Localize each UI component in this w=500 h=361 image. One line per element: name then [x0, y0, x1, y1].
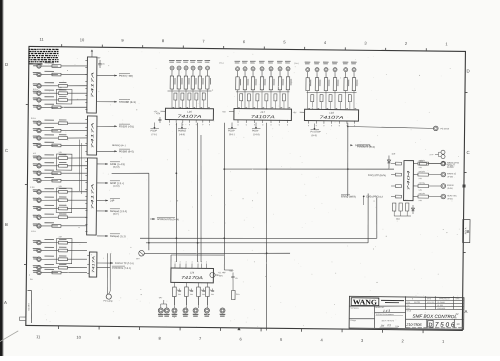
- svg-text:PD Lamp: PD Lamp: [103, 300, 113, 303]
- signal wire P4/S0STB: [97, 266, 131, 270]
- hex buffer L1 (7417A): [87, 57, 97, 113]
- svg-text:4: 4: [192, 261, 193, 264]
- outside engineering text: [376, 313, 404, 316]
- pin stub top: [206, 261, 207, 269]
- svg-text:470 5%: 470 5%: [419, 192, 426, 195]
- net label: [447, 184, 455, 190]
- resistor value label: [44, 239, 54, 240]
- +5V label mid: [153, 112, 162, 123]
- zone tick top: [223, 46, 225, 49]
- resistor value label: [44, 134, 54, 135]
- wire: [265, 101, 267, 109]
- pin number: [173, 106, 175, 109]
- signal wire with arrow: [97, 124, 134, 129]
- wire junction: [266, 252, 268, 254]
- pull-up pin circle (L17 net 1): [234, 61, 240, 71]
- svg-text:4: 4: [201, 260, 202, 263]
- wire: [206, 89, 208, 108]
- pin number: [336, 107, 338, 110]
- wire: [67, 207, 87, 210]
- title block row line: [350, 305, 406, 306]
- connector pin P24: [33, 270, 42, 275]
- net label: [150, 122, 159, 136]
- pull-up pin circle (L16 net 4): [190, 60, 196, 70]
- wire bus: [167, 89, 211, 92]
- pin stub top: [201, 260, 202, 268]
- svg-text:ReSend (1±1): ReSend (1±1): [110, 235, 126, 238]
- capacitor: [178, 288, 182, 296]
- svg-text:P4/CLK TP (7-14.): P4/CLK TP (7-14.): [115, 262, 134, 265]
- pin stub: [246, 120, 247, 127]
- connector pin P19: [33, 223, 41, 228]
- connector pin P6: [33, 105, 41, 110]
- pin stub: [237, 120, 238, 127]
- capacitor: [190, 289, 194, 297]
- svg-text:IN PROT: IN PROT: [447, 166, 455, 169]
- svg-text:9: 9: [270, 124, 271, 127]
- input resistor: [395, 173, 401, 176]
- capacitor: [202, 288, 206, 296]
- wire: [244, 90, 246, 109]
- wire: [61, 73, 87, 76]
- sheet cell: [454, 319, 460, 328]
- series resistor R50: [418, 159, 429, 169]
- resistor R16: [58, 196, 67, 201]
- resistor value label: [44, 222, 54, 223]
- wire: [185, 89, 187, 108]
- svg-text:1DR: 1DR: [391, 153, 395, 156]
- resistor R19: [52, 225, 61, 228]
- wire W3: [145, 252, 291, 255]
- wire: [42, 144, 58, 146]
- capacitor: [211, 288, 215, 296]
- series resistor R53: [418, 192, 429, 202]
- zone tick right: [463, 251, 465, 253]
- resistor R24: [52, 271, 61, 274]
- wire: [270, 90, 272, 109]
- resistor value label: [44, 62, 54, 63]
- connector pin P21: [33, 248, 41, 253]
- svg-text:9: 9: [209, 123, 210, 126]
- +5V arrow: [222, 110, 234, 113]
- resistor value label: [44, 120, 54, 121]
- svg-text:9: 9: [237, 123, 238, 126]
- pin stub top: [185, 260, 186, 268]
- resistor R1: [52, 65, 61, 68]
- pull-up pin circle (L16 net 2): [176, 60, 182, 70]
- wire to pad: [197, 297, 199, 309]
- wire: [279, 71, 281, 77]
- signal wire with arrow: [97, 234, 126, 239]
- svg-text:74107A: 74107A: [177, 114, 201, 119]
- pin stub: [85, 160, 87, 162]
- pull-up resistor (L18-5): [344, 78, 349, 91]
- wire vertical from L17: [223, 123, 226, 254]
- test point circle B+5: [204, 308, 210, 317]
- series resistor: [188, 93, 191, 100]
- svg-text:C 2.2: C 2.2: [30, 186, 35, 189]
- svg-text:STROBE (5+5): STROBE (5+5): [119, 101, 136, 104]
- pull-up resistor (L17-5): [269, 77, 274, 90]
- wire: [192, 70, 194, 76]
- svg-text:7417A: 7417A: [90, 121, 94, 149]
- signal wire with arrow: [97, 198, 120, 203]
- pin stub: [85, 108, 87, 110]
- wire: [248, 101, 250, 109]
- pin number: [238, 106, 240, 109]
- wire H1 sector pulse: [224, 167, 394, 171]
- +5V supply arrow: [91, 49, 101, 59]
- signal wire with arrow: [97, 149, 134, 154]
- pin number: [208, 106, 210, 109]
- tab foot cell: [20, 317, 26, 320]
- pull-up pin circle (L17 net 4): [259, 61, 265, 71]
- wire: [240, 101, 242, 109]
- pull-up pin circle (L16 net 3): [183, 60, 189, 70]
- resistor R11: [58, 154, 67, 159]
- signal wire with arrow: [97, 99, 136, 104]
- pin stub: [85, 142, 87, 144]
- series resistor R52: [418, 182, 429, 192]
- resistor R22: [58, 256, 67, 261]
- wire: [61, 271, 87, 274]
- sheet tab box: [27, 290, 32, 323]
- pin number: [327, 107, 329, 110]
- resistor value label: [44, 214, 54, 215]
- svg-text:WRITE 2ξ: WRITE 2ξ: [447, 163, 456, 166]
- wire: [391, 173, 395, 175]
- pin stub top: [191, 261, 192, 269]
- wire to pad: [173, 297, 175, 309]
- series resistor: [256, 94, 259, 101]
- svg-text:4: 4: [198, 261, 199, 264]
- series resistor: [274, 94, 277, 101]
- pin number: [289, 106, 291, 109]
- svg-text:74107A: 74107A: [251, 114, 275, 119]
- wire: [188, 100, 190, 108]
- MODEL NO cell: [375, 306, 390, 313]
- wire H0 sense line: [348, 127, 434, 129]
- register file L24 (74170A): [171, 268, 214, 283]
- wire: [42, 266, 58, 268]
- zone tick top: [304, 47, 306, 50]
- wire: [429, 195, 442, 197]
- svg-text:WANG: WANG: [353, 298, 378, 306]
- pull-up resistor (L16-5): [198, 76, 203, 89]
- pin number: [318, 107, 320, 110]
- hex inverter L30 (7404): [404, 161, 414, 201]
- pull-up pin circle (L16 net 1): [169, 60, 175, 70]
- pull-up resistor (L17-2): [243, 77, 248, 90]
- hex buffer L3 (7417A): [87, 158, 97, 235]
- wire: [61, 179, 87, 182]
- pin stub: [85, 216, 87, 218]
- svg-text:+5V: +5V: [293, 111, 297, 114]
- connector pin P2: [33, 72, 41, 77]
- pin number: [187, 106, 189, 109]
- wire W2: [146, 191, 369, 245]
- svg-text:.01: .01: [102, 63, 105, 66]
- pin stub: [87, 272, 89, 274]
- resistor R20: [58, 239, 67, 244]
- wire: [325, 72, 327, 78]
- pin stub top: [197, 261, 198, 269]
- pin circle with resistor: [419, 160, 455, 169]
- resistor R13: [52, 172, 61, 175]
- wire: [316, 72, 318, 78]
- size cell divider: [426, 319, 428, 328]
- svg-text:(9-D4): (9-D4): [447, 197, 453, 200]
- wire: [334, 91, 336, 110]
- wire junction: [175, 172, 177, 174]
- svg-text:9: 9: [169, 123, 170, 126]
- zone tick left: [26, 103, 28, 105]
- wire: [42, 157, 58, 159]
- pin number: [263, 106, 265, 109]
- wire: [42, 207, 58, 209]
- wire: [178, 70, 180, 76]
- connector pin P12: [33, 163, 42, 168]
- svg-text:SMF BOX CONTROL: SMF BOX CONTROL: [413, 314, 458, 320]
- resistor value label: [44, 256, 54, 257]
- pull-up resistor (L18-6): [352, 78, 357, 91]
- resistor value label: [44, 264, 54, 265]
- size letter D box: [428, 320, 433, 328]
- wire: [67, 137, 87, 140]
- wire horizontal to cap branch: [171, 254, 224, 255]
- svg-text:P4 STOP: P4 STOP: [311, 130, 321, 133]
- resistor value label: [44, 96, 54, 97]
- resistor R9: [58, 134, 67, 139]
- zone tick right: [465, 91, 467, 93]
- wire: [174, 100, 176, 108]
- wire: [329, 102, 331, 110]
- pin stub: [189, 120, 190, 127]
- zone tick left: [24, 263, 26, 265]
- zone tick bottom: [179, 327, 181, 330]
- zone tick bottom: [260, 328, 262, 331]
- test point circle GND4: [193, 308, 199, 317]
- resistor value label: [44, 177, 54, 178]
- bottom border arrow artifact: [237, 327, 240, 330]
- microtext strip bottom of title block: [406, 327, 463, 329]
- resistor value label: [44, 104, 54, 105]
- series resistor R51: [418, 170, 429, 180]
- pull-up pin circle (L18 net 4): [332, 62, 338, 72]
- wire: [287, 71, 289, 77]
- svg-text:+5V: +5V: [96, 56, 101, 59]
- pull-up resistor (L17-6): [278, 77, 283, 90]
- pin stub: [85, 80, 87, 82]
- wire: [192, 89, 194, 108]
- wire: [61, 144, 87, 147]
- signal wire with arrow: [97, 181, 124, 188]
- wire: [42, 99, 58, 101]
- net label: [228, 122, 237, 136]
- wire: [181, 100, 183, 108]
- logo subtitle LABORATORIES INC: [381, 300, 404, 303]
- pull-up resistor (L18-4): [333, 78, 338, 91]
- connector pin P4: [33, 91, 41, 96]
- pull-up resistor (L18-1): [306, 78, 311, 91]
- svg-text:7417A: 7417A: [90, 182, 94, 210]
- svg-text:(7-8.): (7-8.): [151, 133, 157, 136]
- series resistor: [265, 94, 268, 101]
- svg-text:9: 9: [254, 123, 255, 126]
- svg-text:P0/S80 (6+5): P0/S80 (6+5): [119, 150, 134, 153]
- zone tick bottom: [138, 327, 140, 330]
- wire: [42, 216, 58, 218]
- wire: [316, 91, 318, 110]
- connector pin P7: [33, 121, 42, 126]
- resistor R23: [58, 264, 67, 269]
- series resistor: [195, 93, 198, 100]
- svg-text:+5V: +5V: [222, 110, 226, 113]
- pin stub top: [174, 261, 175, 269]
- net label P4/SEVP: [350, 144, 371, 147]
- series resistor: [202, 93, 205, 100]
- net label: [252, 122, 261, 136]
- pin stub: [169, 119, 170, 126]
- svg-text:B: B: [5, 222, 8, 227]
- svg-text:9: 9: [279, 124, 280, 127]
- svg-text:9: 9: [316, 124, 317, 127]
- resistor value label: [44, 247, 54, 248]
- pull-up resistor (L16-2): [177, 76, 182, 89]
- wire: [270, 71, 272, 77]
- value label +11 .4W: [218, 271, 226, 277]
- wire junction: [148, 242, 150, 244]
- bypass capacitor C1: [98, 60, 104, 68]
- zone tick top: [385, 48, 387, 51]
- pull-up pin circle (L18 net 2): [314, 62, 320, 72]
- svg-text:74107A: 74107A: [320, 115, 344, 120]
- pin stub: [85, 202, 87, 204]
- wire: [42, 106, 58, 108]
- wire: [42, 73, 58, 75]
- pin stub: [339, 121, 340, 128]
- wire: [391, 185, 395, 187]
- svg-text:4: 4: [186, 260, 187, 263]
- svg-text:470: 470: [419, 160, 422, 163]
- wire: [68, 122, 88, 125]
- connector pin P15: [33, 189, 42, 194]
- resistor value label: [44, 197, 54, 198]
- wire junction: [223, 237, 225, 239]
- svg-text:.01: .01: [235, 277, 238, 280]
- svg-text:P5/2P: P5/2P: [228, 129, 235, 132]
- wire W1: [140, 195, 377, 241]
- wire bus: [307, 92, 357, 93]
- zone tick right: [464, 171, 466, 173]
- pin stub: [85, 209, 87, 211]
- zone tick top: [182, 46, 184, 49]
- approval rows: [405, 301, 463, 311]
- wire pair to PD lamp: [107, 253, 111, 294]
- svg-text:P4/S0STB (7-9.1): P4/S0STB (7-9.1): [112, 267, 131, 270]
- pin stub: [279, 120, 280, 127]
- resistor value label: [44, 82, 54, 83]
- svg-text:(7-4-): (7-4-): [219, 62, 224, 65]
- resistor R10: [52, 144, 61, 147]
- pull-up resistor (L17-4): [260, 77, 265, 90]
- series resistor: [311, 95, 314, 102]
- wire: [42, 271, 58, 273]
- resistor R18: [58, 213, 67, 218]
- svg-text:(9-D2): (9-D2): [448, 175, 454, 178]
- pull-up pin circle (L17 net 7): [285, 61, 291, 71]
- resistor R17: [58, 205, 67, 210]
- pin number: [246, 106, 248, 109]
- wire: [391, 196, 395, 198]
- wire: [67, 99, 87, 102]
- resistor value label: [44, 188, 54, 189]
- pin stub: [85, 118, 87, 120]
- driver output wire 1: [413, 162, 417, 164]
- resistor R14: [52, 179, 61, 182]
- wire: [344, 91, 346, 110]
- wire: [236, 90, 238, 109]
- wire: [206, 70, 208, 76]
- connector pin P5: [33, 97, 41, 102]
- zone tick top: [61, 44, 63, 47]
- series resistor: [329, 95, 332, 102]
- pin stub: [85, 167, 87, 169]
- pin stub: [196, 119, 197, 126]
- test point circle TP30: [158, 308, 164, 317]
- +5V arrow: [293, 111, 305, 114]
- pin number: [308, 107, 310, 110]
- wire: [68, 85, 88, 88]
- svg-text:(5.6+): (5.6+): [113, 213, 119, 216]
- pin number: [254, 106, 256, 109]
- test point circle B-6: [220, 308, 226, 317]
- pin stub: [85, 73, 87, 75]
- connector pin P8: [33, 128, 42, 133]
- pin number: [272, 106, 274, 109]
- svg-text:ERASE: ERASE: [447, 184, 454, 187]
- output pin circle 1: [441, 161, 446, 166]
- pin stub: [85, 181, 87, 183]
- FINISH cell: [349, 318, 374, 322]
- resistor R40: [231, 290, 240, 299]
- resistor R3: [58, 82, 67, 87]
- wire: [349, 102, 351, 110]
- svg-text:+5V: +5V: [154, 110, 158, 113]
- wire: [287, 90, 289, 109]
- wire down to +45V cap: [224, 253, 233, 270]
- svg-text:9: 9: [331, 124, 332, 127]
- svg-text:(1-8.8): (1-8.8): [253, 133, 260, 136]
- wire: [42, 172, 58, 174]
- series resistor: [174, 93, 177, 100]
- junction H0: [347, 126, 349, 128]
- wire junction: [197, 242, 199, 244]
- transistor Q1: [136, 250, 144, 260]
- output pin circle 4: [441, 194, 446, 199]
- pin stub: [316, 120, 317, 127]
- signal wire with arrow: [97, 73, 133, 78]
- divider: [373, 306, 375, 328]
- wire junction: [347, 168, 349, 170]
- resistor value label: [44, 154, 54, 155]
- svg-text:WRITE 2ξ: WRITE 2ξ: [447, 172, 456, 175]
- svg-text:P0/X0 [+D6]: P0/X0 [+D6]: [119, 75, 133, 78]
- wire: [391, 162, 395, 164]
- svg-text:(3-8-1: (3-8-1: [229, 133, 236, 136]
- connector pin P3: [33, 83, 42, 88]
- title block frame: [349, 296, 464, 330]
